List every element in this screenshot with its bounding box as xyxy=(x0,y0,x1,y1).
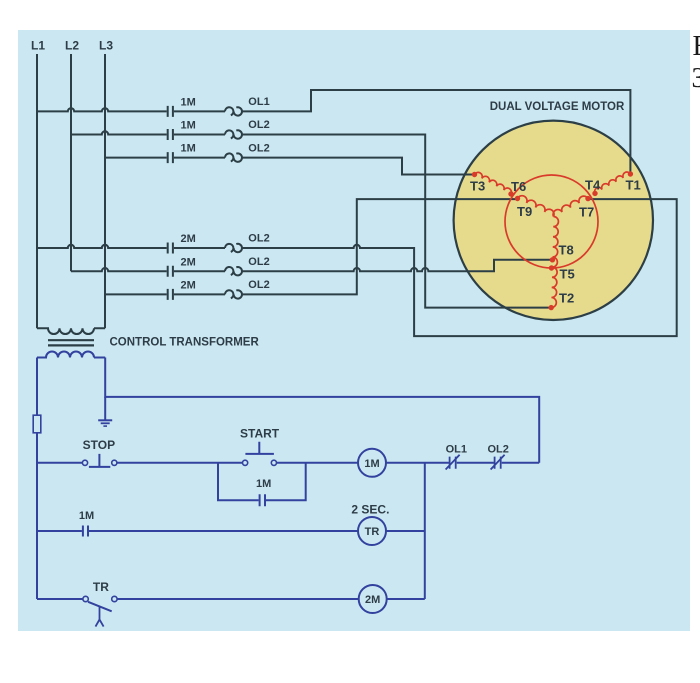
wire row2 contact to heater xyxy=(174,134,225,136)
wire rung1 stop to start xyxy=(117,462,242,464)
wire rung3 left xyxy=(37,598,83,600)
svg-text:2M: 2M xyxy=(181,280,196,292)
svg-text:TR: TR xyxy=(93,580,109,594)
wire row4 left segment xyxy=(37,245,167,248)
wire row2 to T2 xyxy=(242,135,549,308)
wire rung1 coil to OL xyxy=(386,462,449,464)
winding T8-T5-T2 xyxy=(551,217,558,308)
wire row4 contact to heater xyxy=(174,247,225,249)
wire row3 contact to heater xyxy=(174,157,225,159)
svg-text:T5: T5 xyxy=(560,267,575,282)
svg-text:L2: L2 xyxy=(65,39,79,53)
wire seal-in branch xyxy=(218,463,306,500)
wire row1 left segment xyxy=(37,108,167,111)
pushbutton START xyxy=(243,442,277,466)
contact 2M row6 xyxy=(168,289,173,300)
svg-text:1M: 1M xyxy=(364,458,379,470)
contact 2M row5 xyxy=(168,266,173,277)
svg-text:T1: T1 xyxy=(626,178,641,193)
coil 1M xyxy=(358,449,386,477)
svg-text:T8: T8 xyxy=(559,243,574,258)
svg-text:T3: T3 xyxy=(470,179,485,194)
overload heater OL2 row3 xyxy=(225,153,242,161)
svg-text:T9: T9 xyxy=(517,204,532,219)
pushbutton STOP xyxy=(82,454,117,467)
wire rung1 start to coil xyxy=(277,462,358,464)
overload heater OL2 row2 xyxy=(225,130,242,138)
node T6 junction xyxy=(508,191,513,196)
node T1 terminal xyxy=(628,171,633,176)
wire row3 to T3 xyxy=(242,158,472,175)
contact 1M rung2 xyxy=(83,526,88,537)
contact TR timed (NOTC) xyxy=(83,596,117,626)
transformer core xyxy=(48,340,94,345)
overload heater OL2 row6 xyxy=(225,290,242,298)
contact 1M row1 xyxy=(168,106,173,117)
svg-text:OL1: OL1 xyxy=(446,443,467,455)
node T9 junction xyxy=(515,196,520,201)
svg-text:3: 3 xyxy=(692,63,700,94)
node T4 junction xyxy=(592,191,597,196)
transformer secondary xyxy=(37,352,105,358)
winding T1-T4 xyxy=(595,172,631,193)
svg-text:2M: 2M xyxy=(181,233,196,245)
wire row1 to T1 xyxy=(242,90,630,172)
winding T3-T6 xyxy=(475,172,512,194)
contact OL1 (NC) xyxy=(446,455,460,470)
svg-text:1M: 1M xyxy=(181,143,196,155)
svg-text:T6: T6 xyxy=(511,179,526,194)
svg-text:CONTROL TRANSFORMER: CONTROL TRANSFORMER xyxy=(110,337,260,349)
svg-text:1M: 1M xyxy=(181,120,196,132)
svg-text:L3: L3 xyxy=(99,39,113,53)
coil 2M xyxy=(359,585,387,613)
wire L3 rail xyxy=(104,54,106,328)
fuse F1 xyxy=(36,415,38,433)
contact OL2 (NC) xyxy=(491,455,505,470)
svg-text:OL2: OL2 xyxy=(248,119,269,131)
wire L1 rail xyxy=(36,54,38,328)
svg-text:DUAL VOLTAGE MOTOR: DUAL VOLTAGE MOTOR xyxy=(490,101,625,113)
wire row5 left segment xyxy=(71,268,167,271)
coil TR xyxy=(358,517,386,545)
wire row3 left segment xyxy=(105,157,167,159)
svg-text:T2: T2 xyxy=(559,291,574,306)
wire rung1 right xyxy=(502,462,540,464)
winding T7 xyxy=(553,196,588,216)
overload heater OL2 row5 xyxy=(225,267,242,275)
node T5 junction xyxy=(549,265,554,270)
wire rung3 right xyxy=(387,598,425,600)
node T7 junction xyxy=(585,196,590,201)
overload heater OL1 row1 xyxy=(225,107,242,115)
overload heater OL2 row4 xyxy=(225,244,242,252)
svg-text:1M: 1M xyxy=(181,97,196,109)
node T8 junction xyxy=(550,257,555,262)
wire secondary right / top feeder xyxy=(105,358,539,463)
wire rung1 left xyxy=(37,462,82,464)
svg-text:OL2: OL2 xyxy=(488,443,509,455)
wire rung3 to 2M coil xyxy=(117,598,359,600)
ground xyxy=(98,397,112,426)
svg-text:T4: T4 xyxy=(585,178,601,193)
winding T9 xyxy=(518,196,555,217)
wire rung2 to TR coil xyxy=(89,530,358,532)
svg-text:OL2: OL2 xyxy=(248,256,269,268)
svg-text:OL2: OL2 xyxy=(248,233,269,245)
svg-text:OL2: OL2 xyxy=(248,279,269,291)
wire row6 left segment xyxy=(105,293,167,295)
wire right return rail xyxy=(424,463,426,599)
wire row6 to T9 junction xyxy=(242,199,515,294)
wire row5 contact to heater xyxy=(174,270,225,272)
svg-text:2 SEC.: 2 SEC. xyxy=(351,502,389,516)
wire L2 rail xyxy=(70,54,72,271)
svg-text:2M: 2M xyxy=(181,256,196,268)
wire row6 contact to heater xyxy=(174,293,225,295)
node T3 terminal xyxy=(472,172,477,177)
svg-text:OL1: OL1 xyxy=(248,96,269,108)
contact 2M row4 xyxy=(168,243,173,254)
contact 1M row2 xyxy=(168,129,173,140)
wire row4 to T7 via bottom loop xyxy=(242,199,677,336)
wire row1 contact to heater xyxy=(174,110,225,112)
svg-text:START: START xyxy=(240,427,280,441)
wire rung1 OL1 to OL2 xyxy=(457,462,494,464)
svg-text:1M: 1M xyxy=(256,478,271,490)
wire row5 to T8 xyxy=(242,260,550,271)
red wye circle xyxy=(505,175,598,268)
wire left rail xyxy=(36,433,38,599)
motor M1 body xyxy=(454,121,653,320)
transformer primary xyxy=(37,328,105,334)
svg-text:STOP: STOP xyxy=(83,438,115,452)
node T2 terminal xyxy=(549,305,554,310)
contact 1M row3 xyxy=(168,152,173,163)
wire rung2 right xyxy=(386,530,425,532)
wire rung2 left xyxy=(37,530,82,532)
svg-text:OL2: OL2 xyxy=(248,142,269,154)
wire secondary left to rail xyxy=(36,358,38,416)
svg-text:E: E xyxy=(693,31,700,62)
svg-text:T7: T7 xyxy=(579,205,594,220)
wire row2 left segment xyxy=(71,131,167,134)
svg-text:2M: 2M xyxy=(365,594,380,606)
svg-text:1M: 1M xyxy=(79,510,94,522)
svg-text:TR: TR xyxy=(365,526,380,538)
svg-text:L1: L1 xyxy=(31,39,45,53)
contact 1M seal-in xyxy=(260,494,265,506)
